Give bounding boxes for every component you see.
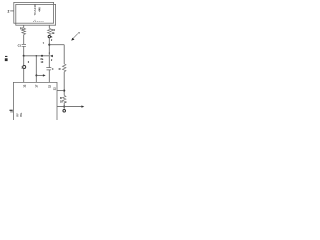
junction dot output [63, 106, 65, 108]
junction dot bus x42 [41, 55, 43, 57]
wire mid branch x36 [35, 56, 37, 83]
figure label margin row1 [5, 56, 7, 57]
svg-text:6: 6 [28, 61, 30, 64]
terminal circle on wire [23, 66, 26, 69]
wire R1 to C1 [23, 35, 25, 45]
resistor R3 [62, 64, 66, 72]
svg-text:TCA440: TCA440 [33, 4, 37, 15]
wire R3 to junction [63, 72, 65, 96]
resistor R4 [62, 95, 66, 102]
signal arrow pointing right at pin wire [35, 74, 37, 76]
resistor R2 [48, 28, 52, 34]
svg-text:17: 17 [35, 84, 39, 87]
annotation arrow diagonal [73, 34, 78, 39]
svg-text:BG: BG [19, 113, 23, 117]
svg-text:10: 10 [41, 61, 44, 64]
capacitor C2 plates [46, 68, 51, 70]
terminal circle on wire x49 [48, 35, 50, 37]
junction dot x64 y90 [63, 90, 65, 92]
svg-text:a: a [78, 31, 80, 34]
arrowhead on bus pointing left [50, 55, 53, 58]
wire circle to box [23, 69, 25, 83]
wire R4 to output node [63, 103, 65, 107]
junction dot mid branch [36, 55, 37, 56]
svg-text:12: 12 [48, 84, 52, 87]
IC block U1 shadow rectangle [16, 4, 56, 25]
svg-text:12: 12 [53, 87, 57, 90]
wire C1 to bus [23, 46, 25, 56]
svg-text:440: 440 [38, 7, 42, 12]
wire bus horizontal [24, 55, 50, 57]
svg-text:2: 2 [51, 39, 53, 42]
output wire [57, 106, 82, 108]
wire divider vertical top [63, 45, 65, 64]
svg-text:k: k [34, 20, 36, 21]
wire from box right edge to divider [57, 90, 64, 92]
junction dot x49 [48, 44, 50, 46]
wire from U1 bottom pin x49 [48, 25, 50, 28]
junction node at bus left [23, 55, 25, 57]
figure label margin row2 [5, 58, 8, 61]
svg-text:2: 2 [51, 59, 53, 62]
svg-text:12: 12 [23, 84, 27, 87]
svg-text:c: c [43, 41, 45, 44]
pin 11 stub [10, 111, 13, 113]
block U2 bottom box [13, 82, 57, 120]
svg-text:C1: C1 [18, 44, 22, 48]
pin 11 label left [10, 110, 13, 111]
wire from U1 bottom pin x24 [23, 25, 25, 28]
output arrowhead [81, 105, 84, 107]
svg-text:a: a [49, 53, 51, 55]
svg-text:R1: R1 [20, 27, 24, 31]
wire C2 to box [48, 70, 50, 83]
wire down from bus left branch [23, 56, 25, 66]
pin number dashes inside bottom edge [33, 20, 44, 22]
svg-text:2: 2 [65, 102, 67, 104]
wire bus junction to C2 [48, 56, 50, 68]
wire circle to junction [48, 38, 50, 56]
svg-text:1k: 1k [60, 99, 63, 103]
svg-text:R: R [59, 67, 61, 71]
svg-text:2: 2 [8, 9, 10, 13]
stub to terminal circle [63, 107, 65, 109]
svg-text:C: C [52, 68, 54, 71]
wire pin2 stub [10, 10, 14, 12]
resistor R1 [22, 28, 26, 34]
capacitor C1 plates [22, 44, 26, 46]
terminal circle output [63, 110, 66, 113]
svg-text:a: a [51, 35, 53, 38]
IC block U1 outer rectangle [14, 2, 54, 23]
wire horizontal top of divider [49, 44, 64, 46]
